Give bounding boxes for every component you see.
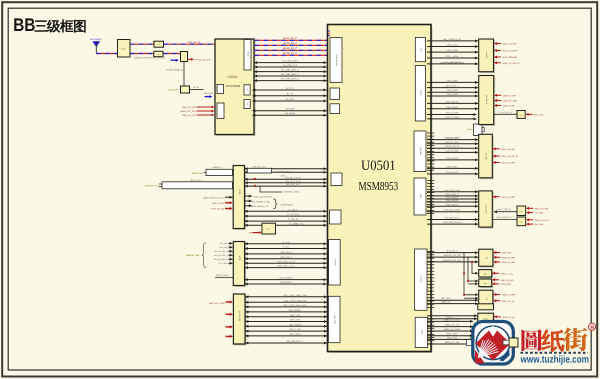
svg-text:GWL_WG13: GWL_WG13 bbox=[289, 333, 301, 336]
svg-text:LVS_FNF: LVS_FNF bbox=[220, 242, 229, 245]
svg-text:ESW_GWP: ESW_GWP bbox=[447, 89, 458, 92]
svg-text:VMIX_GBWWB: VMIX_GBWWB bbox=[502, 56, 517, 59]
svg-text:GW_WWWGG: GW_WWWGG bbox=[279, 277, 293, 280]
svg-text:VMIX_GF_XBO: VMIX_GF_XBO bbox=[503, 100, 518, 103]
svg-text:4GM_GW_S: 4GM_GW_S bbox=[280, 256, 292, 259]
svg-text:PACK_IN 2EVD GBL: PACK_IN 2EVD GBL bbox=[254, 195, 274, 198]
svg-text:2C_IG4_P: 2C_IG4_P bbox=[288, 208, 298, 211]
svg-text:U32: U32 bbox=[485, 256, 488, 259]
svg-text:4GM_IM_WW_S: 4GM_IM_WW_S bbox=[214, 254, 228, 257]
svg-text:VMIX_LK_WL: VMIX_LK_WL bbox=[502, 316, 516, 319]
svg-text:WCN3680B: WCN3680B bbox=[226, 84, 241, 88]
svg-text:C4G_T_GW: C4G_T_GW bbox=[446, 49, 457, 52]
svg-text:WL_CMD_DATA_2: WL_CMD_DATA_2 bbox=[281, 73, 300, 76]
svg-text:C4W_WT_WT1: C4W_WT_WT1 bbox=[445, 141, 460, 144]
svg-text:VMIX_LK_WL: VMIX_LK_WL bbox=[501, 279, 515, 282]
svg-text:WL_CMD_DAT0: WL_CMD_DAT0 bbox=[282, 60, 298, 63]
svg-text:2GA_T_WLT_AWG_WGA: 2GA_T_WLT_AWG_WGA bbox=[283, 304, 307, 307]
svg-text:xWB-WV_1: xWB-WV_1 bbox=[212, 166, 223, 169]
svg-text:4GM_IM_WW_K: 4GM_IM_WW_K bbox=[214, 258, 228, 261]
svg-text:UIM1: UIM1 bbox=[419, 47, 422, 51]
svg-text:WLAN: WLAN bbox=[247, 51, 250, 57]
svg-text:VW_FNB: VW_FNB bbox=[534, 223, 543, 226]
svg-text:SDC2: SDC2 bbox=[419, 91, 422, 96]
svg-text:4GM_GW_A: 4GM_GW_A bbox=[280, 251, 292, 254]
svg-text:VMIX_G_CPR: VMIX_G_CPR bbox=[503, 94, 517, 97]
svg-text:BT_W: BT_W bbox=[193, 86, 199, 89]
svg-text:2C_IG4_WLA: 2C_IG4_WLA bbox=[287, 213, 300, 216]
svg-text:WLAN_5G_N: WLAN_5G_N bbox=[283, 42, 297, 45]
svg-text:LVS_CWW: LVS_CWW bbox=[218, 262, 227, 265]
svg-text:C4W_WW_WTB_A: C4W_WW_WTB_A bbox=[443, 221, 462, 224]
svg-text:GW_GTWLT: GW_GTWLT bbox=[280, 281, 292, 284]
svg-text:x4WLT_LWW_W: x4WLT_LWW_W bbox=[497, 208, 511, 211]
svg-text:4GBA_WT_CW: 4GBA_WT_CW bbox=[445, 324, 460, 327]
svg-text:UART: UART bbox=[419, 194, 422, 200]
svg-text:WTR: WTR bbox=[238, 256, 241, 261]
svg-text:xWGW_WWW_xLW_WGW: xWGW_WWW_xLW_WGW bbox=[440, 62, 465, 65]
svg-text:xFNx: xFNx bbox=[467, 128, 471, 131]
svg-text:GWL WTR: GWL WTR bbox=[333, 315, 336, 325]
svg-text:FWLG_LG_VFR: FWLG_LG_VFR bbox=[195, 58, 211, 61]
svg-text:VMIX_W_CPR: VMIX_W_CPR bbox=[501, 196, 515, 199]
svg-text:2GP165 CYW: 2GP165 CYW bbox=[145, 185, 158, 188]
svg-text:ESW_GWP2: ESW_GWP2 bbox=[446, 196, 459, 199]
svg-text:PGL_GVD: PGL_GVD bbox=[204, 92, 214, 95]
svg-text:(AWAN/WAN): (AWAN/WAN) bbox=[281, 203, 294, 206]
svg-text:VMIX_W_CPR: VMIX_W_CPR bbox=[501, 162, 515, 165]
svg-text:U9XX WTR: U9XX WTR bbox=[238, 311, 241, 322]
svg-text:VWM_LW_WR: VWM_LW_WR bbox=[534, 207, 548, 210]
svg-text:VMIX_LA_GB: VMIX_LA_GB bbox=[502, 261, 516, 264]
svg-text:GWL_WGW2: GWL_WGW2 bbox=[289, 323, 302, 326]
svg-text:BT_RX2: BT_RX2 bbox=[286, 98, 295, 101]
svg-text:CPW_PNA: CPW_PNA bbox=[501, 283, 512, 286]
svg-text:C4W_IWW_CWK: C4W_IWW_CWK bbox=[444, 189, 461, 192]
svg-text:4LW_WL_A: 4LW_WL_A bbox=[447, 250, 459, 253]
svg-text:WL_CMD_DATA_1: WL_CMD_DATA_1 bbox=[281, 69, 300, 72]
svg-text:VMIX_IG_EN: VMIX_IG_EN bbox=[212, 202, 225, 205]
svg-text:4GM10D CGB: 4GM10D CGB bbox=[186, 254, 200, 257]
svg-text:C4W_WW_WGW: C4W_WW_WGW bbox=[444, 209, 460, 212]
svg-text:/WL_ROWR_CYWL: /WL_ROWR_CYWL bbox=[252, 200, 271, 203]
svg-text:VW_FNB: VW_FNB bbox=[534, 212, 543, 215]
svg-text:C4W_WC_WW1: C4W_WC_WW1 bbox=[444, 137, 460, 140]
svg-text:C4W_W_WW: C4W_W_WW bbox=[446, 149, 459, 152]
svg-text:F3601: F3601 bbox=[121, 47, 126, 50]
svg-text:VMIX_LG_GPS_R: VMIX_LG_GPS_R bbox=[502, 62, 520, 65]
svg-text:5UB_AN_AN: 5UB_AN_AN bbox=[188, 41, 201, 44]
svg-text:U34: U34 bbox=[485, 297, 488, 300]
svg-text:WLAN_2G_P: WLAN_2G_P bbox=[283, 47, 297, 50]
svg-text:LVS_FNS: LVS_FNS bbox=[219, 246, 228, 249]
svg-text:WL_CMD_DATA_3: WL_CMD_DATA_3 bbox=[281, 78, 300, 81]
svg-text:GWL_WG3: GWL_WG3 bbox=[290, 319, 301, 322]
svg-text:2GA_T_WLT_AWG_CW: 2GA_T_WLT_AWG_CW bbox=[284, 299, 306, 302]
svg-text:U29GPS: U29GPS bbox=[485, 51, 488, 59]
svg-text:2WB3AD WB GEW GPS_RUJ_IN: 2WB3AD WB GEW GPS_RUJ_IN bbox=[134, 56, 166, 59]
svg-text:4WL_WWW3_R_W: 4WL_WWW3_R_W bbox=[443, 38, 461, 41]
svg-text:BT_CTL: BT_CTL bbox=[286, 87, 295, 90]
svg-text:2GA_WT_CLK_P: 2GA_WT_CLK_P bbox=[285, 176, 301, 179]
svg-text:(2W_WIFI_GBL): (2W_WIFI_GBL) bbox=[276, 171, 291, 174]
svg-text:J6500 CWWA4-4_SCT: J6500 CWWA4-4_SCT bbox=[203, 196, 225, 199]
svg-text:ESIM/MIC CWGQ: ESIM/MIC CWGQ bbox=[284, 190, 301, 193]
svg-text:ESW_GWG2: ESW_GWG2 bbox=[446, 199, 459, 202]
svg-text:ESW_GWG: ESW_GWG bbox=[446, 93, 457, 96]
svg-text:4GBA_WT_WW1: 4GBA_WT_WW1 bbox=[444, 318, 461, 321]
svg-text:U3601: U3601 bbox=[228, 75, 238, 79]
svg-text:2GA_WT_DAT: 2GA_WT_DAT bbox=[286, 183, 300, 186]
svg-text:BLVS_CLK_P: BLVS_CLK_P bbox=[191, 179, 204, 182]
svg-text:I2S MI2S: I2S MI2S bbox=[420, 275, 423, 283]
svg-text:WAN_LG_VIO: WAN_LG_VIO bbox=[182, 106, 196, 109]
svg-text:WCN WLAN: WCN WLAN bbox=[335, 54, 338, 66]
svg-text:C4G_I_LW4: C4G_I_LW4 bbox=[446, 44, 458, 47]
svg-text:SMW_LW_WR: SMW_LW_WR bbox=[501, 148, 515, 151]
svg-text:LP5S: LP5S bbox=[238, 189, 241, 195]
svg-text:VMIX_LL_WL: VMIX_LL_WL bbox=[501, 272, 515, 275]
svg-text:U30 USB: U30 USB bbox=[485, 152, 488, 160]
svg-text:VMIX_ALS_CMA: VMIX_ALS_CMA bbox=[209, 302, 226, 305]
svg-text:C4W_WWL1: C4W_WWL1 bbox=[446, 165, 459, 168]
svg-text:2GA_WT_CLK_N: 2GA_WT_CLK_N bbox=[285, 180, 301, 183]
svg-text:4GBA_WT_WW2: 4GBA_WT_WW2 bbox=[444, 328, 461, 331]
svg-text:WTR_GWG_CLK_S: WTR_GWG_CLK_S bbox=[277, 265, 296, 268]
svg-text:VMIX_G_CPR: VMIX_G_CPR bbox=[502, 294, 516, 297]
svg-text:C4W_WLGTE: C4W_WLGTE bbox=[445, 171, 459, 174]
svg-text:4GM_IM_WW_A: 4GM_IM_WW_A bbox=[214, 250, 228, 253]
svg-text:C4W_WGW: C4W_WGW bbox=[446, 79, 457, 82]
svg-text:BT_TX: BT_TX bbox=[287, 93, 294, 96]
svg-text:GWL_T_W: GWL_T_W bbox=[290, 314, 300, 317]
svg-text:4GW_WWT_C: 4GW_WWT_C bbox=[445, 193, 459, 196]
svg-text:CML_FNA: CML_FNA bbox=[534, 114, 544, 117]
svg-text:ESW_WWTE: ESW_WWTE bbox=[446, 100, 459, 103]
svg-text:GWT_CWK: GWT_CWK bbox=[447, 333, 458, 336]
svg-text:4GTW_WC_1: 4GTW_WC_1 bbox=[446, 85, 460, 88]
svg-text:WW_WB_CWT_S: WW_WB_CWT_S bbox=[287, 340, 304, 343]
svg-text:GPIO: GPIO bbox=[420, 330, 423, 335]
svg-text:GJT_4GC: GJT_4GC bbox=[441, 297, 451, 300]
svg-text:VMIX_LW_WF_B: VMIX_LW_WF_B bbox=[501, 155, 518, 158]
svg-text:GWL_T_W2: GWL_T_W2 bbox=[289, 328, 301, 331]
svg-text:WLAN_5G_P: WLAN_5G_P bbox=[283, 37, 297, 40]
svg-text:C4W_GWWT: C4W_GWWT bbox=[446, 157, 459, 160]
svg-text:WTR IF: WTR IF bbox=[333, 259, 336, 266]
svg-text:4WWGW_WC_WG: 4WWGW_WC_WG bbox=[443, 259, 461, 262]
svg-text:WLAN_2G_N: WLAN_2G_N bbox=[283, 52, 297, 55]
svg-text:VMIX_G_CPR: VMIX_G_CPR bbox=[502, 256, 516, 259]
svg-text:2GA_T_WLT_AWG_CWA: 2GA_T_WLT_AWG_CWA bbox=[283, 294, 307, 297]
svg-text:VMIX_LG_GPS: VMIX_LG_GPS bbox=[502, 50, 517, 53]
svg-text:J6500 ESCL: J6500 ESCL bbox=[192, 172, 205, 175]
svg-text:U35W: U35W bbox=[483, 317, 488, 320]
svg-text:C4G_I_WGW: C4G_I_WGW bbox=[446, 55, 459, 58]
svg-text:2C_IG4_WL: 2C_IG4_WL bbox=[287, 218, 299, 221]
svg-text:4WL_ROWN_/YW: 4WL_ROWN_/YW bbox=[252, 205, 269, 208]
svg-text:U31 CONN: U31 CONN bbox=[485, 204, 488, 214]
svg-text:ESW_WWTE2: ESW_WWTE2 bbox=[445, 203, 459, 206]
svg-text:WL_CMD_CLK: WL_CMD_CLK bbox=[283, 64, 298, 67]
svg-text:C4W_WW_WT_x: C4W_WW_WT_x bbox=[444, 217, 461, 220]
svg-text:2C_IG_x: 2C_IG_x bbox=[296, 222, 304, 225]
svg-text:ANT-WIFI/BT: ANT-WIFI/BT bbox=[90, 38, 103, 41]
svg-text:VMIX_G_GB: VMIX_G_GB bbox=[503, 105, 516, 108]
svg-text:VMIX_AG_EN: VMIX_AG_EN bbox=[211, 208, 225, 211]
svg-text:4GBA_WT: 4GBA_WT bbox=[441, 301, 452, 304]
svg-text:J4500 EGEL: J4500 EGEL bbox=[168, 89, 179, 92]
svg-text:U9F GB1W: U9F GB1W bbox=[485, 95, 488, 104]
svg-text:FM_2GB: FM_2GB bbox=[286, 108, 295, 111]
svg-text:GWL_WGWT: GWL_WGWT bbox=[289, 309, 302, 312]
svg-text:CPA_FNA: CPA_FNA bbox=[502, 252, 512, 255]
svg-text:LT_GTS: LT_GTS bbox=[282, 246, 290, 249]
svg-text:x4W_GWWG_WT: x4W_GWWG_WT bbox=[496, 216, 512, 219]
svg-text:4GLW_WW_W: 4GLW_WW_W bbox=[445, 145, 459, 148]
svg-text:WTR_GWG_CLK_A: WTR_GWG_CLK_A bbox=[277, 260, 296, 263]
svg-text:VWM_LW_WTF: VWM_LW_WTF bbox=[534, 219, 550, 222]
svg-text:2TWB_GWGA_IN: 2TWB_GWGA_IN bbox=[166, 68, 183, 71]
svg-text:xWB_WV_CLK: xWB_WV_CLK bbox=[252, 166, 266, 169]
svg-text:C4W_IC_WWW: C4W_IC_WWW bbox=[445, 116, 460, 119]
svg-text:VMIX_LG_LPB: VMIX_LG_LPB bbox=[502, 43, 517, 46]
svg-text:GWT_WW: GWT_WW bbox=[447, 336, 457, 339]
svg-text:LT_GTW: LT_GTW bbox=[282, 241, 290, 244]
svg-text:C_LW_CWKL_LT: C_LW_CWKL_LT bbox=[498, 111, 514, 114]
svg-text:4GBA_WT_WG: 4GBA_WT_WG bbox=[445, 341, 460, 344]
svg-text:ESW_WSVD: ESW_WSVD bbox=[446, 106, 459, 109]
svg-text:C4W_IC_WW: C4W_IC_WW bbox=[446, 112, 459, 115]
svg-text:WAN_LG_VID: WAN_LG_VID bbox=[182, 114, 196, 117]
svg-text:VMIX_LK_WL: VMIX_LK_WL bbox=[502, 300, 516, 303]
svg-text:4GWT_WWG: 4GWT_WWG bbox=[216, 274, 229, 277]
svg-text:4WWGW_WC_WR: 4WWGW_WC_WR bbox=[443, 254, 461, 257]
svg-text:FM_WWW: FM_WWW bbox=[285, 112, 295, 115]
svg-text:USB HS: USB HS bbox=[419, 147, 422, 155]
svg-text:WAN_LGC_GPI: WAN_LGC_GPI bbox=[181, 110, 196, 113]
